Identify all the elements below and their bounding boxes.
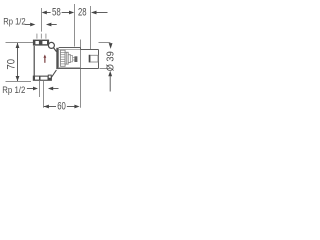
valve body bottom flange (33, 76, 52, 81)
dimension 60 left arrow (44, 105, 49, 109)
step 3 (68, 55, 70, 63)
dimension 60 line (44, 106, 56, 108)
bottom port extension lines (39, 81, 41, 97)
diameter 39 bottom extension line (100, 68, 111, 70)
svg-text:Rp 1/2: Rp 1/2 (3, 17, 26, 27)
cap flange (dark) (89, 55, 91, 63)
extension line 60 right (80, 40, 82, 108)
svg-text:70: 70 (6, 59, 18, 70)
leader arrow left-pointing bottom (48, 87, 53, 91)
valve block left edge (33, 46, 35, 76)
step 2 (65, 52, 68, 64)
leader arrow right-pointing top (25, 24, 31, 26)
block top-right diagonal (54, 48, 57, 52)
dimension 70 top arrow (16, 43, 20, 48)
spindle shaft lines (73, 57, 75, 59)
top thread ticks (36, 34, 38, 39)
step 4 (70, 56, 72, 62)
dimension 28 right outside arrow (91, 11, 97, 15)
sleeve top inner line (59, 49, 80, 51)
extension line top port centerline (41, 8, 43, 32)
red flow arrow logo (43, 55, 46, 58)
dimension 58 right arrow (69, 11, 74, 15)
dimension 70 bottom extension line (6, 81, 32, 83)
cartridge back plate (dark bar) (56, 48, 58, 69)
extension line 28 right (90, 6, 92, 49)
diameter 39 top arrow (109, 43, 113, 49)
sleeve top outer line (59, 47, 81, 49)
dimension 70 bottom arrow (16, 76, 20, 81)
bottom flange corner box (48, 75, 51, 78)
threaded section (60, 50, 65, 66)
box right edge (98, 50, 100, 69)
bottom outer line (56, 68, 98, 70)
svg-text:60: 60 (57, 100, 66, 112)
dimension 70 top extension line (6, 42, 34, 44)
dimension 60 right arrow (74, 105, 79, 109)
box top edge (81, 49, 99, 51)
svg-text:Ø 39: Ø 39 (105, 51, 116, 71)
protection cap (90, 55, 98, 62)
mounting ear circle (48, 42, 54, 48)
svg-text:28: 28 (78, 6, 87, 18)
diameter 39 top extension line (99, 42, 111, 44)
svg-text:58: 58 (52, 6, 61, 18)
dimension 70 line (17, 43, 19, 81)
leader arrow right-pointing bottom (27, 88, 34, 90)
leader arrow left-pointing top (46, 23, 52, 27)
spindle end nub (74, 56, 77, 62)
diameter 39 bottom arrow (108, 71, 112, 76)
sleeve bottom inner line (59, 67, 80, 69)
sleeve step (80, 48, 82, 50)
extension line for 58/28 boundary (74, 4, 76, 47)
dimension 58 left arrow (42, 11, 47, 15)
dimension 58 line (47, 12, 51, 14)
block bottom-right chamfer (51, 70, 56, 78)
svg-text:Rp 1/2: Rp 1/2 (2, 85, 25, 95)
valve body top flange (33, 40, 49, 46)
